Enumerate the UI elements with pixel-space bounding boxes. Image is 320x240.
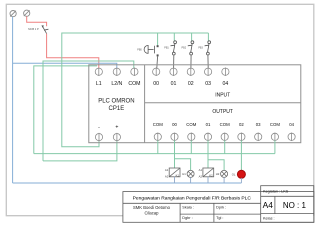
- svg-text:A4: A4: [263, 200, 274, 210]
- wire green: left phase tap: [34, 66, 97, 154]
- wire green output 01 to K2 coil: [207, 140, 209, 168]
- svg-text:COM: COM: [220, 122, 230, 127]
- supply terminal X2 (L): [24, 10, 30, 16]
- svg-text:PB2: PB2: [182, 47, 187, 50]
- svg-text:03: 03: [256, 122, 261, 127]
- svg-text:INPUT: INPUT: [215, 92, 230, 98]
- PLC bottom terminals: [95, 133, 295, 142]
- svg-text:01: 01: [206, 122, 211, 127]
- wire green branch to H2 lamp: [208, 160, 224, 171]
- wire green output 02 to OL lamp: [240, 140, 242, 170]
- lamp H1: [187, 170, 194, 177]
- svg-text:OUTPUT: OUTPUT: [212, 109, 233, 115]
- wire N blue bottom rail to OL lamp: [13, 182, 242, 184]
- svg-text:Skala :: Skala :: [182, 205, 194, 209]
- PLC top terminals: [95, 68, 229, 76]
- wire green branch to H1 lamp: [175, 159, 191, 171]
- svg-text:Tgl :: Tgl :: [216, 216, 223, 220]
- svg-text:H2: H2: [216, 172, 220, 176]
- wire S1 to input 01: [173, 55, 175, 68]
- svg-text:K1: K1: [176, 173, 180, 177]
- wire green rail drop to S1: [173, 33, 175, 41]
- svg-text:00: 00: [153, 81, 159, 87]
- svg-text:COM: COM: [153, 122, 163, 127]
- contactor coil K1: [169, 168, 180, 177]
- labels top terminals: [96, 81, 228, 87]
- svg-text:K2: K2: [209, 173, 213, 177]
- wire green rail drop to PB0: [157, 33, 159, 46]
- wire green rail drop to S2: [191, 33, 193, 41]
- title block: [123, 186, 314, 223]
- wire green COM out drops to phase rail: [158, 140, 275, 153]
- svg-text:CP1E: CP1E: [109, 106, 125, 112]
- switch S3: [205, 41, 211, 55]
- wire green: plus terminal to left riser: [43, 141, 117, 161]
- wire S3 to input 03: [207, 55, 209, 68]
- wire stubs to neutral rail: [175, 177, 242, 183]
- wire 24V green: input COM link: [43, 61, 134, 161]
- svg-text:A2: A2: [199, 175, 203, 179]
- lamp OL red: [237, 170, 245, 178]
- svg-text:L1: L1: [96, 81, 102, 87]
- wire N blue: to L2/N terminal: [13, 63, 117, 68]
- wire green: switch supply rail riser: [62, 33, 209, 147]
- wire green: output phase rail: [34, 153, 275, 155]
- svg-text:00: 00: [172, 122, 177, 127]
- svg-text:Pengawatan Rangkaian Pengendal: Pengawatan Rangkaian Pengendali F/R Berb…: [133, 195, 252, 201]
- wire S2 to input 02: [190, 55, 192, 68]
- svg-text:COM: COM: [186, 122, 196, 127]
- svg-text:OL: OL: [232, 173, 236, 177]
- svg-text:PLC OMRON: PLC OMRON: [98, 99, 134, 105]
- svg-text:PB1: PB1: [164, 47, 169, 50]
- wire L red: MCB to L1 terminal: [47, 34, 99, 69]
- svg-text:PB0: PB0: [137, 48, 142, 51]
- svg-text:Kegiatan : LKS: Kegiatan : LKS: [263, 189, 289, 193]
- wire PB0 to input 00: [156, 56, 159, 68]
- svg-text:01: 01: [171, 81, 177, 87]
- svg-text:H1: H1: [182, 172, 186, 176]
- svg-text:COM: COM: [270, 122, 280, 127]
- svg-text:Dgbr :: Dgbr :: [182, 216, 192, 220]
- svg-text:NO : 1: NO : 1: [283, 201, 307, 210]
- svg-text:04: 04: [289, 122, 294, 127]
- svg-text:Kelas :: Kelas :: [263, 216, 275, 220]
- breaker MCB 1P: [42, 25, 49, 33]
- switch S1: [171, 41, 177, 55]
- svg-text:A1: A1: [199, 168, 203, 172]
- svg-text:COM: COM: [128, 81, 140, 87]
- svg-text:-: -: [98, 124, 100, 130]
- svg-text:+: +: [115, 124, 118, 130]
- PLC U1 body: [89, 65, 301, 143]
- svg-text:03: 03: [205, 81, 211, 87]
- svg-text:02: 02: [239, 122, 244, 127]
- contactor coil K2: [203, 168, 214, 177]
- svg-text:Dprk :: Dprk :: [216, 205, 226, 209]
- svg-text:A1: A1: [165, 168, 169, 172]
- svg-text:A2: A2: [165, 175, 169, 179]
- pushbutton PB0: [144, 45, 159, 56]
- supply terminal X1 (N): [10, 11, 16, 17]
- svg-text:04: 04: [223, 81, 229, 87]
- svg-text:PB3: PB3: [198, 47, 203, 50]
- svg-text:MCB 1 P: MCB 1 P: [28, 27, 39, 31]
- lamp H2: [221, 170, 228, 177]
- svg-text:Cilacap: Cilacap: [145, 210, 160, 215]
- wire green output 00 to K1 coil: [174, 140, 176, 168]
- switch S2: [188, 41, 194, 55]
- svg-text:L2/N: L2/N: [111, 81, 122, 87]
- wire N blue: X1 down left side to bottom rail: [12, 17, 14, 183]
- wire L red: X2 to MCB: [27, 16, 47, 26]
- svg-text:02: 02: [188, 81, 194, 87]
- labels bottom terminals: [98, 122, 294, 131]
- wire green rail drop to S3: [207, 33, 209, 41]
